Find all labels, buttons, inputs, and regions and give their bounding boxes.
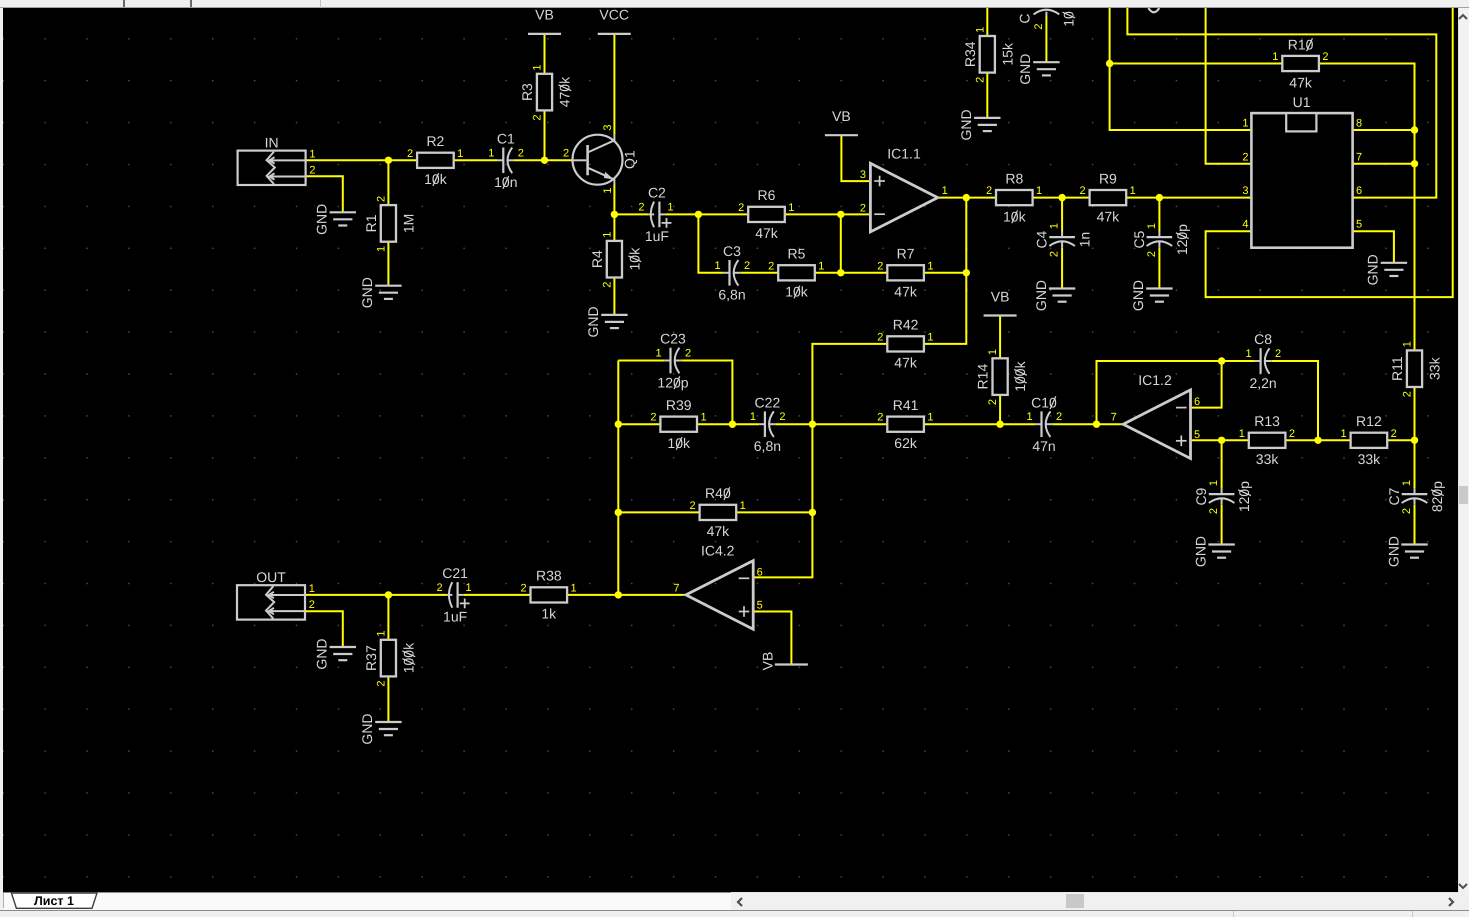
wire — [840, 214, 842, 272]
connector OUT — [237, 569, 315, 619]
svg-text:R6: R6 — [758, 187, 776, 203]
svg-text:U1: U1 — [1293, 94, 1311, 110]
svg-text:2: 2 — [974, 77, 986, 83]
op-amp IC U1 — [1242, 94, 1362, 248]
wire — [613, 34, 615, 134]
wire — [454, 159, 498, 161]
svg-text:R11: R11 — [1389, 356, 1405, 381]
svg-text:2: 2 — [1275, 348, 1281, 360]
wire — [514, 159, 573, 161]
svg-text:1: 1 — [532, 65, 544, 71]
svg-text:33k: 33k — [1256, 451, 1280, 467]
capacitor C10 47n — [1026, 394, 1062, 454]
wire — [1158, 248, 1160, 288]
resistor R10 47k — [1272, 36, 1328, 90]
ground — [1385, 536, 1427, 567]
svg-text:2: 2 — [520, 582, 526, 594]
svg-text:R7: R7 — [897, 246, 915, 262]
svg-text:7: 7 — [1111, 412, 1117, 424]
wire — [698, 214, 723, 272]
wire — [613, 185, 615, 242]
resistor R34 15k — [962, 27, 1016, 83]
ground — [1033, 280, 1075, 311]
ground — [359, 277, 401, 308]
capacitor C8 2,2n — [1246, 331, 1282, 391]
wire — [1126, 197, 1251, 199]
node — [837, 211, 844, 218]
svg-text:100k: 100k — [1012, 360, 1028, 391]
svg-text:C1: C1 — [497, 130, 515, 146]
svg-text:7: 7 — [1356, 151, 1362, 163]
svg-text:1: 1 — [1239, 428, 1245, 440]
svg-text:IC1.2: IC1.2 — [1138, 372, 1172, 388]
svg-text:1: 1 — [1049, 223, 1061, 229]
svg-text:Лист 1: Лист 1 — [34, 894, 74, 908]
svg-text:R1: R1 — [363, 214, 379, 232]
wire — [1414, 440, 1416, 488]
node — [1106, 60, 1113, 67]
svg-text:47n: 47n — [1032, 438, 1055, 454]
resistor R41 62k — [877, 397, 933, 451]
svg-text:2,2n: 2,2n — [1249, 375, 1276, 391]
power VB — [825, 108, 858, 135]
wire — [841, 135, 870, 181]
svg-text:2: 2 — [309, 165, 315, 177]
svg-text:2: 2 — [877, 260, 883, 272]
svg-text:33k: 33k — [1358, 451, 1382, 467]
resistor R38 1k — [520, 568, 576, 622]
toolbar bottom strip — [0, 0, 1469, 8]
node — [615, 421, 622, 428]
wire — [1414, 387, 1416, 440]
svg-text:R2: R2 — [426, 133, 444, 149]
svg-text:VCC: VCC — [599, 8, 629, 23]
svg-text:47k: 47k — [707, 523, 731, 539]
ground — [314, 638, 356, 669]
svg-text:1M: 1M — [400, 214, 416, 233]
svg-text:C23: C23 — [660, 331, 686, 347]
ground — [314, 204, 356, 235]
wire — [1206, 8, 1453, 297]
svg-text:IC1.1: IC1.1 — [887, 145, 921, 161]
svg-text:6: 6 — [1194, 396, 1200, 408]
node — [1093, 421, 1100, 428]
wire — [681, 361, 732, 425]
resistor R14 100k — [975, 349, 1029, 405]
wire — [812, 423, 887, 425]
svg-text:1: 1 — [457, 148, 463, 160]
node — [695, 211, 702, 218]
wire — [618, 423, 660, 425]
wire — [1353, 129, 1415, 131]
wire — [697, 423, 732, 425]
svg-text:GND: GND — [1033, 280, 1049, 311]
wire — [387, 595, 389, 640]
ground — [585, 306, 627, 337]
svg-text:R5: R5 — [788, 246, 806, 262]
svg-text:47k: 47k — [1097, 208, 1121, 224]
node — [615, 509, 622, 516]
power VCC — [598, 7, 631, 34]
wire — [567, 594, 686, 596]
svg-text:470k: 470k — [557, 76, 573, 107]
wire — [1271, 361, 1318, 440]
svg-text:47k: 47k — [894, 284, 918, 300]
resistor R2 10k — [407, 133, 463, 187]
svg-text:R38: R38 — [536, 568, 562, 584]
transistor Q1 — [563, 124, 638, 193]
resistor R13 33k — [1239, 413, 1295, 467]
wire — [618, 511, 699, 513]
svg-text:C4: C4 — [1034, 230, 1050, 248]
svg-text:1: 1 — [1341, 428, 1347, 440]
power VB — [528, 7, 561, 34]
svg-text:2: 2 — [986, 185, 992, 197]
svg-text:R12: R12 — [1356, 413, 1382, 429]
svg-text:C21: C21 — [442, 565, 468, 581]
resistor R12 33k — [1341, 413, 1397, 467]
wire — [812, 344, 887, 424]
svg-text:5: 5 — [1356, 219, 1362, 231]
resistor R5 10k — [768, 246, 824, 300]
resistor R4 10k — [589, 232, 643, 288]
ground — [359, 713, 401, 744]
svg-text:VB: VB — [535, 8, 554, 23]
wire — [1191, 439, 1249, 441]
wire — [544, 34, 546, 74]
wire — [740, 272, 778, 274]
svg-text:GND: GND — [1130, 280, 1146, 311]
resistor R7 47k — [877, 246, 933, 300]
svg-text:VB: VB — [832, 108, 851, 124]
svg-text:R14: R14 — [975, 364, 991, 390]
svg-text:2: 2 — [1146, 251, 1158, 257]
wire — [306, 611, 343, 647]
svg-text:2: 2 — [638, 201, 644, 213]
resistor R40 47k — [690, 485, 746, 539]
wire — [1191, 361, 1222, 408]
svg-text:2: 2 — [1289, 428, 1295, 440]
svg-text:2: 2 — [1322, 51, 1328, 63]
svg-text:1: 1 — [375, 246, 387, 252]
svg-text:1: 1 — [375, 631, 387, 637]
svg-text:R42: R42 — [893, 317, 919, 333]
svg-text:120p: 120p — [657, 374, 688, 390]
svg-text:3: 3 — [860, 169, 866, 181]
node — [1411, 126, 1418, 133]
wire — [753, 612, 791, 665]
resistor R6 47k — [738, 187, 794, 241]
svg-text:2: 2 — [987, 399, 999, 405]
wire — [1110, 63, 1283, 65]
wire — [1387, 439, 1414, 441]
resistor R8 10k — [986, 170, 1042, 224]
node — [1411, 160, 1418, 167]
svg-text:1: 1 — [1272, 51, 1278, 63]
svg-text:GND: GND — [1365, 254, 1381, 285]
svg-text:10: 10 — [1061, 11, 1077, 27]
wire — [544, 110, 546, 160]
svg-text:2: 2 — [1402, 391, 1414, 397]
svg-text:47k: 47k — [894, 355, 918, 371]
svg-text:6: 6 — [1356, 185, 1362, 197]
node — [729, 421, 736, 428]
svg-text:2: 2 — [1033, 23, 1045, 29]
node — [1218, 357, 1225, 364]
svg-text:2: 2 — [375, 681, 387, 687]
node — [541, 157, 548, 164]
wire — [387, 676, 389, 721]
svg-text:GND: GND — [314, 204, 330, 235]
svg-text:8: 8 — [1356, 118, 1362, 130]
wire — [1414, 505, 1416, 545]
wire — [614, 213, 648, 215]
svg-text:1: 1 — [655, 348, 661, 360]
resistor R3 470k — [519, 65, 573, 121]
ground — [1365, 254, 1407, 285]
svg-text:1: 1 — [1036, 185, 1042, 197]
svg-text:1: 1 — [1130, 185, 1136, 197]
wire — [1285, 439, 1350, 441]
svg-text:C9: C9 — [1193, 487, 1209, 505]
svg-text:2: 2 — [563, 148, 569, 160]
capacitor C5 120p — [1131, 223, 1190, 257]
svg-text:GND: GND — [958, 109, 974, 140]
svg-text:C22: C22 — [755, 394, 781, 410]
node — [809, 421, 816, 428]
svg-text:1: 1 — [1208, 480, 1220, 486]
wire — [999, 395, 1001, 424]
toolbar panel edge — [320, 0, 321, 8]
svg-text:R4: R4 — [589, 250, 605, 268]
svg-text:2: 2 — [744, 260, 750, 272]
svg-text:R3: R3 — [519, 83, 535, 101]
svg-text:6: 6 — [757, 567, 763, 579]
svg-text:C7: C7 — [1386, 487, 1402, 505]
svg-text:R13: R13 — [1254, 413, 1280, 429]
resistor R1 1M — [363, 196, 417, 252]
svg-text:1: 1 — [750, 411, 756, 423]
svg-text:1: 1 — [1402, 341, 1414, 347]
svg-text:2: 2 — [1242, 151, 1248, 163]
capacitor C3 6,8n — [714, 243, 750, 303]
svg-text:2: 2 — [779, 411, 785, 423]
svg-text:1: 1 — [1146, 223, 1158, 229]
vertical scrollbar — [1458, 8, 1469, 893]
capacitor C7 820p — [1386, 480, 1445, 514]
svg-text:1: 1 — [927, 412, 933, 424]
svg-text:R8: R8 — [1005, 170, 1023, 186]
horizontal scrollbar — [731, 892, 1457, 910]
wire — [1221, 505, 1223, 545]
node — [611, 211, 618, 218]
svg-text:GND: GND — [314, 638, 330, 669]
power VB — [984, 288, 1017, 315]
wire — [736, 511, 812, 513]
svg-text:1: 1 — [740, 500, 746, 512]
status bar — [0, 910, 1469, 917]
node — [1314, 437, 1321, 444]
svg-text:5: 5 — [1194, 429, 1200, 441]
svg-text:2: 2 — [1391, 428, 1397, 440]
svg-text:1: 1 — [1401, 480, 1413, 486]
svg-text:47k: 47k — [1289, 74, 1313, 90]
svg-text:1: 1 — [818, 260, 824, 272]
sheet tab bar — [3, 892, 731, 910]
node — [1411, 437, 1418, 444]
svg-text:1: 1 — [667, 201, 673, 213]
svg-text:2: 2 — [518, 147, 524, 159]
svg-text:R39: R39 — [666, 397, 692, 413]
node — [1218, 437, 1225, 444]
svg-text:R41: R41 — [893, 397, 919, 413]
svg-text:2: 2 — [650, 412, 656, 424]
wire — [387, 242, 389, 286]
capacitor C23 120p — [655, 331, 691, 391]
svg-text:2: 2 — [601, 282, 613, 288]
svg-text:6,8n: 6,8n — [754, 438, 781, 454]
node — [1156, 194, 1163, 201]
svg-text:C5: C5 — [1131, 230, 1147, 248]
svg-text:120p: 120p — [1236, 481, 1252, 512]
wire — [924, 423, 1036, 425]
svg-text:C8: C8 — [1254, 331, 1272, 347]
svg-text:C: C — [1017, 13, 1033, 23]
svg-text:2: 2 — [877, 412, 883, 424]
wire — [776, 423, 813, 425]
svg-text:1: 1 — [488, 147, 494, 159]
svg-text:2: 2 — [437, 582, 443, 594]
ground — [1017, 54, 1059, 85]
wire — [618, 360, 665, 362]
wire — [1353, 163, 1415, 165]
svg-text:IC4.2: IC4.2 — [701, 543, 735, 559]
svg-text:820p: 820p — [1429, 481, 1445, 512]
op-amp IC4.2 — [673, 543, 762, 630]
svg-text:2: 2 — [1049, 251, 1061, 257]
wire — [1206, 8, 1252, 164]
power VB — [759, 652, 808, 671]
wire — [1222, 360, 1255, 362]
ground — [1130, 280, 1172, 311]
wire — [665, 213, 698, 215]
node — [809, 509, 816, 516]
resistor R42 47k — [877, 317, 933, 371]
svg-text:1: 1 — [700, 412, 706, 424]
svg-text:15k: 15k — [999, 42, 1015, 66]
svg-text:1: 1 — [1242, 118, 1248, 130]
wire — [986, 8, 988, 36]
svg-text:1: 1 — [927, 331, 933, 343]
wire — [938, 197, 996, 199]
wire — [698, 213, 748, 215]
node — [996, 421, 1003, 428]
capacitor C1 10n — [488, 130, 524, 190]
svg-text:6,8n: 6,8n — [718, 287, 745, 303]
svg-text:3: 3 — [602, 124, 614, 130]
svg-text:3: 3 — [1242, 185, 1248, 197]
svg-text:GND: GND — [359, 713, 375, 744]
resistor R9 47k — [1080, 170, 1136, 224]
toolbar separator tick — [123, 0, 125, 7]
capacitor C22 6,8n — [750, 394, 786, 454]
svg-text:GND: GND — [1017, 54, 1033, 85]
op-amp IC1.2 — [1111, 372, 1200, 459]
wire — [999, 316, 1001, 359]
node — [615, 591, 622, 598]
node — [1058, 194, 1065, 201]
svg-text:1: 1 — [1246, 348, 1252, 360]
wire — [1221, 440, 1223, 488]
capacitor C4 1n — [1034, 223, 1093, 257]
svg-text:2: 2 — [1401, 508, 1413, 514]
svg-text:1: 1 — [309, 148, 315, 160]
svg-text:2: 2 — [738, 202, 744, 214]
wire — [1045, 16, 1047, 62]
wire — [306, 176, 343, 212]
wire — [617, 361, 619, 595]
svg-text:1k: 1k — [541, 606, 557, 622]
wire — [1061, 248, 1063, 288]
svg-text:2: 2 — [532, 115, 544, 121]
wire — [1097, 361, 1222, 424]
svg-text:62k: 62k — [894, 435, 918, 451]
svg-text:Q1: Q1 — [622, 150, 638, 169]
svg-text:1: 1 — [601, 232, 613, 238]
wire — [1061, 198, 1063, 232]
svg-text:2: 2 — [690, 500, 696, 512]
connector IN — [238, 135, 316, 185]
svg-text:1: 1 — [309, 583, 315, 595]
svg-text:C3: C3 — [723, 243, 741, 259]
resistor R39 10k — [650, 397, 706, 451]
svg-text:2: 2 — [1080, 185, 1086, 197]
wire — [753, 424, 812, 577]
node — [385, 157, 392, 164]
svg-text:2: 2 — [877, 331, 883, 343]
svg-text:GND: GND — [1192, 536, 1208, 567]
capacitor C9 120p — [1193, 480, 1252, 514]
ground — [958, 109, 1000, 140]
wire — [785, 213, 871, 215]
svg-text:2: 2 — [1056, 411, 1062, 423]
svg-text:1: 1 — [788, 202, 794, 214]
wire — [986, 73, 988, 118]
svg-text:1: 1 — [942, 185, 948, 197]
svg-text:IN: IN — [265, 135, 279, 151]
svg-text:1: 1 — [974, 27, 986, 33]
svg-text:2: 2 — [768, 260, 774, 272]
node — [963, 269, 970, 276]
svg-text:1uF: 1uF — [645, 228, 669, 244]
wire — [463, 594, 530, 596]
svg-text:GND: GND — [359, 277, 375, 308]
capacitor C21 1uF — [437, 565, 472, 625]
wire — [1353, 231, 1394, 262]
wire — [924, 198, 966, 344]
toolbar separator tick — [190, 0, 192, 7]
svg-text:2: 2 — [860, 202, 866, 214]
svg-text:R34: R34 — [962, 41, 978, 67]
wire — [1052, 423, 1123, 425]
node — [385, 591, 392, 598]
capacitor C2 1uF — [638, 185, 673, 245]
svg-text:1n: 1n — [1077, 232, 1093, 248]
wire — [924, 272, 966, 274]
wire — [815, 272, 888, 274]
wire — [306, 159, 418, 161]
resistor R37 100k — [363, 631, 417, 687]
